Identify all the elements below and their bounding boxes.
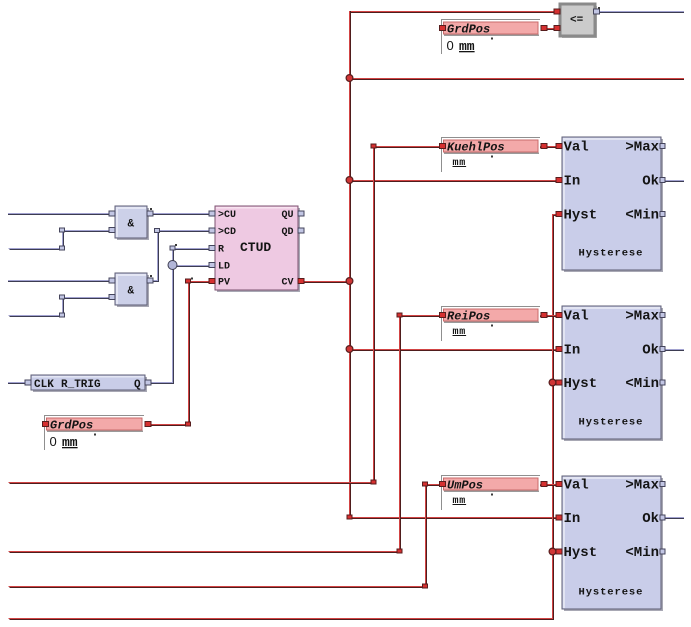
corner node G2 output riser [155,229,160,233]
junction node LD branch [168,261,177,270]
wire AND G1 input 1 from left edge [8,214,110,215]
svg-text:CTUD: CTUD [240,240,271,255]
junction node Hyst feeder / U4.Hyst [549,548,556,555]
wire KuehlPos V2 to U2.Val [540,147,562,148]
svg-text:Q: Q [134,379,141,391]
junction node red bus / U3.In branch [346,346,353,353]
pin nub V1 left [43,422,49,427]
value label of V4 [453,496,467,507]
edge detector U6 R_TRIG [31,375,147,392]
svg-text:GrdPos: GrdPos [50,419,93,433]
pin nub V1 right [145,422,151,427]
pin nub U1 QU [298,211,304,216]
wire red branch to U3.In [350,350,562,351]
svg-text:UmPos: UmPos [447,479,483,493]
wire UmPos feeder from left edge [9,485,443,588]
svg-text:R: R [218,245,224,256]
svg-text:Hysterese: Hysterese [579,417,644,429]
svg-text:GrdPos: GrdPos [447,23,490,37]
AND gate G1 [115,206,149,240]
svg-text:Hyst: Hyst [564,545,598,561]
pin nub U5 input 1 [554,9,560,14]
pin nub U1 CD [209,228,215,233]
svg-text:In: In [564,511,581,527]
corner node G1 input riser [60,228,65,232]
svg-text:>CD: >CD [218,227,236,238]
svg-text:Val: Val [564,309,589,325]
pin nub U1 CU [209,211,215,216]
corner node G2 input riser [60,295,65,299]
function block U4 Hysterese [562,476,663,611]
svg-text:>CU: >CU [218,210,236,221]
variable V2 KuehlPos [442,138,541,173]
wire U3.Ok output to right [663,350,684,351]
svg-text:&: & [128,286,135,298]
junction node Hyst feeder / U3.Hyst [549,379,556,386]
pin G2 output [147,278,153,283]
wire Hyst feeder from left edge to U2.Hyst [9,215,564,620]
svg-text:QU: QU [281,210,293,221]
wire stub to U3.Hyst [551,383,562,384]
pin nub V3 left [440,313,446,318]
corner node KuehlPos riser bottom [371,480,376,484]
wire UmPos V4 to U4.Val [540,485,562,486]
corner node ReiPos riser top [397,313,402,317]
corner node G2 input riser bottom [60,313,65,317]
corner node PV riser top [186,279,191,283]
wire GrdPos V5 to comparator U5 input 2 [541,29,560,30]
svg-text:In: In [564,174,581,190]
function block U2 Hysterese [562,137,663,272]
svg-text:CLK: CLK [34,379,54,391]
wire red branch to U4.In [349,518,562,519]
wire R_TRIG U6 input from left edge [8,383,25,384]
pin nub U2 In [556,178,562,183]
svg-text:Hysterese: Hysterese [579,248,644,260]
svg-text:>Max: >Max [625,140,659,156]
pin nub V3 right [541,313,547,318]
junction node red bus / U2.In branch [346,177,353,184]
pin nub U4 Ok [660,515,665,520]
corner node R_TRIG riser [170,246,175,250]
AND gate G2 [115,273,149,307]
svg-text:mm: mm [453,327,467,338]
svg-text:>Max: >Max [625,478,659,494]
svg-text:mm: mm [459,39,475,54]
variable V5 GrdPos [442,20,541,55]
value label of V1 [50,434,78,450]
pin nub U1 R [209,246,215,251]
junction node red bus / y78 branch [346,75,353,82]
pin nub U6 CLK [25,380,31,385]
svg-text:LD: LD [218,262,230,273]
pin nub U3 Ok [660,347,665,352]
svg-text:QD: QD [281,227,293,238]
svg-text:Ok: Ok [642,174,659,190]
svg-text:CV: CV [281,278,293,289]
wire KuehlPos feeder from left edge [9,147,443,484]
variable V1 GrdPos [45,416,145,451]
pin nub V4 left [440,482,446,487]
svg-text:<=: <= [570,15,584,27]
wire red branch to U2.In [350,181,562,182]
svg-text:Val: Val [564,140,589,156]
svg-text:<Min: <Min [625,376,659,392]
pin nub U2 Max [660,144,665,149]
pin nub U3 In [556,347,562,352]
svg-text:<Min: <Min [625,208,659,224]
pin nub U3 Hyst [556,380,562,385]
svg-text:R_TRIG: R_TRIG [61,379,101,391]
pin nub U1 LD [209,263,215,268]
value label of V2 [453,158,467,169]
variable V4 UmPos [442,476,541,511]
corner node UmPos riser top [423,482,428,486]
wire AND G2 input 1 from left edge [8,281,110,282]
pin nub U3 Val [556,313,562,318]
pin nub U2 Ok [660,178,665,183]
wire red bus vertical x=349 [350,11,351,517]
pin nub U3 Max [660,313,665,318]
svg-text:Hyst: Hyst [564,208,598,224]
wire GrdPos feeder to CTUD U1 PV [145,282,217,426]
pin nub U1 PV [209,279,215,284]
junction node red bus / CV [346,278,353,285]
svg-text:ReiPos: ReiPos [447,310,490,324]
svg-text:0: 0 [50,434,57,449]
pin G2 input 1 [109,278,115,283]
svg-text:&: & [128,219,135,231]
svg-text:In: In [564,343,581,359]
value label of V5 [447,38,475,54]
svg-text:Hyst: Hyst [564,376,598,392]
svg-text:Ok: Ok [642,343,659,359]
wire ReiPos feeder from left edge [9,316,443,553]
pin nub V5 left [440,26,446,31]
svg-text:mm: mm [62,435,78,450]
pin nub V4 right [541,482,547,487]
svg-text:<Min: <Min [625,545,659,561]
corner node ReiPos riser bottom [397,549,402,553]
corner node GrdPos corner [186,422,191,426]
pin nub U2 Min [660,212,665,217]
pin G1 output [147,211,153,216]
svg-text:Hysterese: Hysterese [579,587,644,599]
pin nub V2 right [541,144,547,149]
svg-text:Val: Val [564,478,589,494]
wire comparator U5 output to right [598,12,684,13]
svg-text:mm: mm [453,496,467,507]
comparator U5 LE [560,4,597,38]
svg-text:PV: PV [218,278,230,289]
pin nub U4 In [556,515,562,520]
pin nub U4 Max [660,482,665,487]
svg-text:mm: mm [453,158,467,169]
svg-text:0: 0 [447,38,454,53]
pin nub U5 input 2 [554,26,560,31]
corner node In3 corner [347,515,352,519]
pin nub U3 Min [660,380,665,385]
wire AND G2 input 2 from left edge [9,298,112,317]
function block U3 Hysterese [562,306,663,441]
pin nub U2 Hyst [556,212,562,217]
pin nub V5 right [541,26,547,31]
decorative ticks [150,208,152,210]
value label of V3 [453,327,467,338]
corner node G1 input riser bottom [60,246,65,250]
svg-text:>Max: >Max [625,309,659,325]
corner node KuehlPos riser top [371,144,376,148]
wire red net to comparator U5 input 1, y=11 [349,12,560,13]
pin nub U6 Q [145,380,151,385]
pin nub U5 output [594,9,600,14]
variable V3 ReiPos [442,307,541,342]
counter U1 CTUD [215,206,300,292]
wire U4.Ok output to right [663,518,684,519]
pin nub V2 left [440,144,446,149]
pin G2 input 2 [109,295,115,300]
wire AND G1 input 2 from left edge [9,231,112,250]
wire red branch y=78 to right edge [350,79,684,80]
wire CTUD U1 CV output to red bus [298,282,349,283]
pin G1 input 1 [109,211,115,216]
pin nub U4 Hyst [556,549,562,554]
pin G1 input 2 [109,228,115,233]
wire branch to U1.LD [172,266,210,267]
wire ReiPos V3 to U3.Val [540,316,562,317]
wire stub to U4.Hyst [551,552,562,553]
pin nub U4 Min [660,549,665,554]
wire AND G1 output to U1.CU [147,214,210,215]
wire U2.Ok output to right [663,181,684,182]
wire AND G2 output to U1.CD [148,231,212,282]
pin nub U1 QD [298,228,304,233]
pin nub U1 CV [298,279,304,284]
wire R_TRIG U6 Q output to U1.R [151,249,212,384]
svg-text:KuehlPos: KuehlPos [447,141,505,155]
pin nub U2 Val [556,144,562,149]
corner node UmPos riser bottom [423,584,428,588]
pin nub U4 Val [556,482,562,487]
svg-text:Ok: Ok [642,511,659,527]
